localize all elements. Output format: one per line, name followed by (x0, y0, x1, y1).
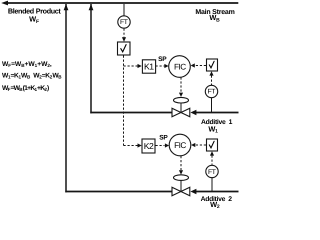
svg-text:FT: FT (207, 89, 215, 96)
svg-text:W1=K1WB W2=K2WB: W1=K1WB W2=K2WB (2, 72, 62, 79)
svg-text:SP: SP (159, 134, 168, 141)
svg-text:FIC: FIC (174, 62, 186, 71)
svg-text:FIC: FIC (174, 141, 186, 150)
svg-text:FT: FT (208, 169, 216, 176)
svg-text:Additive 1: Additive 1 (201, 119, 233, 126)
svg-text:FT: FT (120, 19, 128, 26)
svg-text:SP: SP (158, 56, 167, 63)
svg-text:K1: K1 (144, 62, 154, 72)
svg-text:K2: K2 (144, 141, 154, 151)
